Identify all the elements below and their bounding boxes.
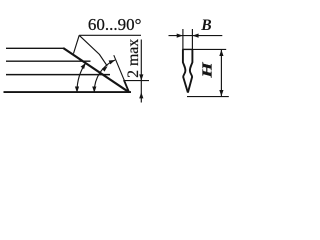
- 2max bottom arrowhead: [139, 92, 143, 98]
- blade bottom surface line: [4, 91, 132, 93]
- H dimension line: [220, 49, 222, 96]
- 2max top extension line: [124, 80, 149, 82]
- H bottom extension line: [187, 96, 229, 98]
- inner angle arc: [94, 60, 115, 92]
- leader arrowhead on inner arc: [102, 66, 108, 71]
- label shelf line: [79, 34, 141, 36]
- 60-degree edge face ray: [114, 55, 129, 91]
- svg-text:60...90°: 60...90°: [88, 15, 142, 34]
- blade upper middle line: [6, 60, 91, 62]
- section top edge: [182, 48, 193, 50]
- outer angle arc: [77, 63, 86, 92]
- B right extension line: [191, 29, 193, 49]
- section profile right side: [188, 49, 193, 92]
- label left stub line: [74, 35, 80, 53]
- B left arrowhead: [177, 34, 183, 38]
- H top arrowhead: [219, 50, 223, 56]
- label leader line: [79, 35, 107, 66]
- outer arc top arrowhead: [81, 63, 86, 69]
- svg-text:2 max: 2 max: [125, 39, 142, 78]
- svg-text:B: B: [200, 17, 211, 34]
- outer arc bottom arrowhead: [75, 87, 79, 93]
- B dimension line: [169, 35, 223, 37]
- H top extension line: [192, 48, 226, 50]
- inner arc top arrowhead: [109, 60, 116, 64]
- 2max top arrowhead: [139, 74, 143, 80]
- svg-text:H: H: [199, 61, 215, 78]
- blade top surface line: [6, 47, 63, 49]
- blade lower middle line: [6, 74, 110, 76]
- B left extension line: [182, 29, 184, 49]
- section profile left side: [183, 49, 188, 92]
- B right arrowhead: [192, 34, 198, 38]
- H bottom arrowhead: [219, 90, 223, 96]
- inner arc bottom arrowhead: [92, 87, 96, 93]
- bevel slant edge: [63, 48, 129, 92]
- edge face thick lower segment: [124, 80, 129, 93]
- 2max dimension line: [140, 40, 142, 103]
